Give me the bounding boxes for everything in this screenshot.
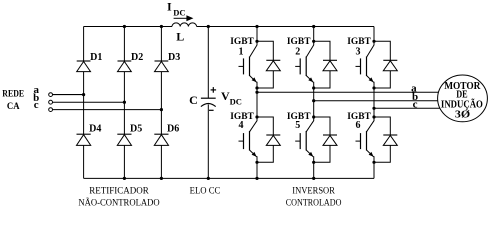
wire: rectifier leg 1 vertical: [83, 27, 85, 179]
label I_DC: [167, 0, 186, 17]
wire: capacitor bottom lead: [207, 104, 209, 178]
wire: motor phase c: [374, 107, 440, 109]
svg-text:INVERSOR: INVERSOR: [292, 186, 335, 196]
motor M (3-phase induction): [438, 75, 488, 122]
svg-text:IGBT: IGBT: [287, 37, 311, 47]
svg-text:IGBT: IGBT: [230, 37, 254, 47]
svg-text:D3: D3: [168, 52, 180, 63]
current arrow I_DC: [174, 15, 194, 21]
node: IGBT 3 emitter/diode junction: [372, 86, 375, 89]
diode D4: [77, 134, 91, 145]
terminal c: [49, 108, 53, 112]
freewheeling diode of IGBT 4: [257, 117, 280, 162]
svg-text:D4: D4: [89, 123, 101, 134]
svg-text:D5: D5: [130, 123, 142, 134]
svg-text:3: 3: [356, 47, 361, 58]
svg-text:6: 6: [356, 120, 361, 131]
freewheeling diode of IGBT 2: [314, 41, 337, 88]
svg-text:3Ø: 3Ø: [455, 109, 471, 121]
svg-text:D6: D6: [167, 123, 179, 134]
node: IGBT 2 emitter/diode junction: [312, 86, 315, 89]
terminal b: [49, 100, 53, 104]
IGBT 6 (transistor symbol with gate): [356, 108, 375, 178]
IGBT 3 (transistor symbol with gate): [356, 27, 375, 109]
svg-text:CONTROLADO: CONTROLADO: [286, 198, 342, 208]
svg-text:1: 1: [239, 47, 244, 58]
svg-text:D1: D1: [90, 52, 102, 63]
junction on bottom bus: [312, 177, 315, 180]
wire: bottom DC bus: [84, 177, 374, 179]
diode D3: [155, 61, 169, 72]
node: IGBT 2 collector junction: [312, 40, 315, 43]
wire: capacitor top lead: [207, 27, 209, 99]
IGBT 5 (transistor symbol with gate): [295, 101, 314, 179]
svg-text:c: c: [34, 99, 39, 111]
diode D1: [77, 61, 91, 72]
svg-text:c: c: [413, 98, 418, 110]
freewheeling diode of IGBT 5: [314, 117, 337, 162]
wire: motor phase b: [314, 100, 438, 102]
terminal a: [49, 93, 53, 97]
node: IGBT 1 collector junction: [255, 40, 258, 43]
freewheeling diode of IGBT 1: [257, 41, 280, 88]
diode D2: [118, 61, 132, 72]
svg-text:NÃO-CONTROLADO: NÃO-CONTROLADO: [78, 198, 160, 208]
junction on bottom bus: [160, 177, 163, 180]
node: leg 1 phase output: [255, 91, 258, 94]
svg-text:IGBT: IGBT: [347, 37, 371, 47]
svg-text:DC: DC: [230, 97, 242, 107]
IGBT 4 (transistor symbol with gate): [239, 92, 258, 178]
IGBT 2 (transistor symbol with gate): [295, 27, 314, 101]
svg-text:REDE: REDE: [2, 89, 24, 99]
wire: top DC bus, right of inductor: [197, 26, 374, 28]
freewheeling diode of IGBT 3: [374, 41, 397, 88]
node: phase a to rectifier: [82, 93, 85, 96]
svg-text:4: 4: [239, 120, 244, 131]
junction on bottom bus: [255, 177, 258, 180]
node: phase c to rectifier: [160, 108, 163, 111]
junction on bottom bus: [123, 177, 126, 180]
node: IGBT 1 emitter/diode junction: [255, 86, 258, 89]
node: leg 2 phase output: [312, 99, 315, 102]
node: IGBT 4 collector junction: [255, 115, 258, 118]
diode D5: [117, 134, 131, 145]
node: IGBT 6 collector junction: [372, 115, 375, 118]
svg-text:DC: DC: [173, 7, 185, 17]
node: IGBT 5 emitter/diode junction: [312, 161, 315, 164]
junction on top bus: [207, 25, 210, 28]
minus sign at capacitor: [209, 109, 214, 111]
svg-text:RETIFICADOR: RETIFICADOR: [89, 186, 149, 196]
wire: source phase c: [53, 109, 162, 111]
junction on top bus: [312, 25, 315, 28]
wire: source phase a: [53, 94, 84, 96]
svg-text:D2: D2: [131, 52, 143, 63]
node: IGBT 4 emitter/diode junction: [255, 161, 258, 164]
plus sign at capacitor: [211, 87, 217, 93]
node: IGBT 6 emitter/diode junction: [372, 161, 375, 164]
junction on top bus: [255, 25, 258, 28]
svg-text:L: L: [176, 30, 184, 44]
wire: top DC bus, left of inductor: [84, 26, 172, 28]
junction on top bus: [123, 25, 126, 28]
junction on top bus: [160, 25, 163, 28]
junction on bottom bus: [207, 177, 210, 180]
capacitor C (polarized): [201, 98, 216, 106]
svg-text:CA: CA: [7, 101, 20, 111]
svg-text:I: I: [167, 0, 172, 14]
svg-text:5: 5: [295, 120, 300, 131]
wire: source phase b: [53, 101, 125, 103]
svg-text:2: 2: [295, 47, 300, 58]
label V_DC: [221, 89, 242, 106]
wire: motor phase a: [257, 91, 438, 93]
inductor L: [172, 23, 197, 27]
svg-text:ELO CC: ELO CC: [190, 186, 221, 196]
IGBT 1 (transistor symbol with gate): [239, 27, 258, 93]
svg-text:C: C: [189, 93, 198, 107]
freewheeling diode of IGBT 6: [374, 117, 397, 162]
node: phase b to rectifier: [123, 101, 126, 104]
wire: rectifier leg 2 vertical: [123, 27, 125, 179]
wire: rectifier leg 3 vertical: [160, 27, 162, 179]
node: leg 3 phase output: [372, 107, 375, 110]
node: IGBT 3 collector junction: [372, 40, 375, 43]
node: IGBT 5 collector junction: [312, 115, 315, 118]
diode D6: [154, 134, 168, 145]
